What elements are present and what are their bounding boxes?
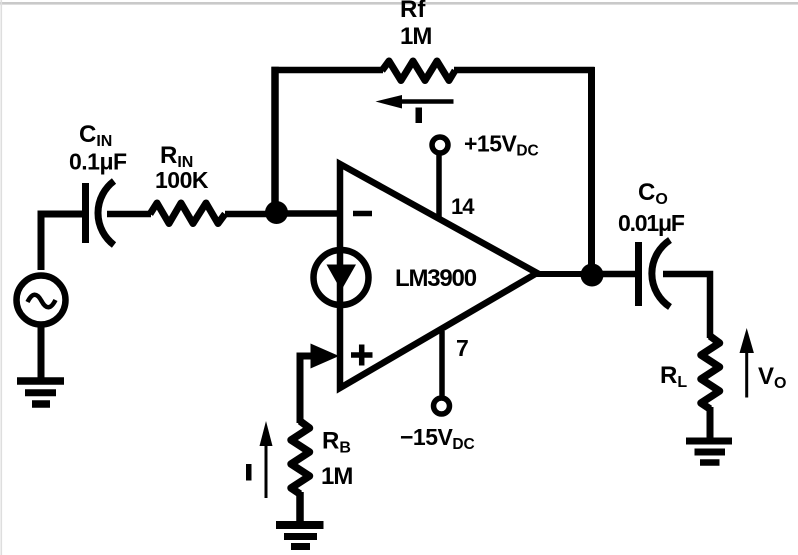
capacitor CO	[639, 240, 671, 307]
wire RIN to inverting input	[225, 211, 270, 218]
+15VDC supply terminal	[432, 137, 448, 153]
resistor RIN	[150, 203, 225, 224]
svg-text:0.1μF: 0.1μF	[69, 149, 127, 175]
svg-text:0.01μF: 0.01μF	[618, 210, 685, 236]
node: output junction	[581, 264, 604, 287]
plus input symbol	[351, 345, 373, 366]
wire RL to ground	[707, 407, 714, 439]
AC source VIN	[17, 276, 66, 325]
wire RB to ground	[296, 492, 304, 523]
wire CIN to RIN	[107, 211, 151, 218]
resistor RB	[291, 421, 310, 494]
current mirror symbol	[314, 250, 369, 305]
wire feedback top left	[272, 67, 384, 74]
plus input arrowhead	[311, 344, 340, 369]
-15VDC supply terminal	[434, 398, 450, 414]
wire output	[535, 271, 585, 277]
current arrow I (feedback)	[376, 95, 454, 109]
wire junction to op-amp minus input	[285, 210, 340, 217]
wire junction to CO	[600, 271, 636, 278]
wire source to ground	[38, 324, 45, 378]
pin 7 wire	[439, 331, 445, 399]
label I (bias)	[246, 464, 252, 481]
ground (RB)	[276, 525, 324, 547]
wire source to CIN	[41, 214, 83, 270]
svg-text:Rf: Rf	[400, 0, 426, 23]
resistor RL	[701, 336, 720, 409]
node: inverting input junction	[265, 201, 288, 224]
ground (output)	[686, 441, 732, 463]
capacitor CIN	[86, 181, 115, 245]
op-amp U1 LM3900	[340, 164, 537, 388]
svg-text:7: 7	[456, 335, 469, 361]
svg-text:1M: 1M	[321, 463, 352, 490]
pin 14 wire	[436, 153, 442, 219]
wire feedback top right	[454, 67, 595, 74]
label I (feedback)	[416, 108, 423, 124]
ground (source)	[17, 381, 64, 404]
svg-text:1M: 1M	[400, 23, 431, 50]
minus input symbol	[353, 211, 372, 217]
wire plus input	[300, 356, 313, 423]
wire feedback left vertical	[271, 67, 279, 206]
svg-text:14: 14	[451, 194, 475, 219]
svg-text:LM3900: LM3900	[395, 265, 477, 292]
wire feedback right vertical	[588, 67, 595, 268]
output voltage arrow VO	[740, 328, 754, 398]
resistor Rf	[382, 61, 455, 81]
svg-text:100K: 100K	[155, 167, 209, 193]
current arrow I (bias)	[260, 421, 273, 498]
wire CO to RL	[663, 274, 710, 338]
